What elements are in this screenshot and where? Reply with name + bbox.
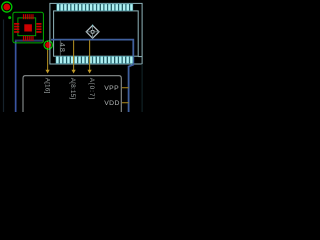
footprint U1 courtyard — [13, 12, 44, 43]
via V1 pad ring — [2, 2, 12, 12]
chip U2 body outline — [23, 76, 121, 112]
wire: outline segment over via V3 — [49, 40, 51, 50]
pin VDD stub — [122, 102, 129, 103]
wire: blue vertical trace — [15, 41, 17, 112]
bus: blue bus polyline — [51, 40, 133, 112]
svg-text:VPP: VPP — [104, 85, 119, 92]
via V3 red drill — [45, 42, 51, 48]
U1 bottom pads — [23, 36, 34, 41]
U1 center pad — [24, 24, 32, 31]
U1 top pads — [23, 14, 34, 19]
connector J1 outer outline — [50, 3, 142, 64]
U1 left pads — [14, 23, 19, 33]
svg-text:48: 48 — [58, 43, 67, 54]
bus entry A[16] arrowhead — [46, 70, 50, 74]
bus entry A[0:7] arrowhead — [88, 70, 92, 74]
marker diamond cross — [86, 25, 99, 38]
connector J1 inner outline — [54, 11, 139, 56]
bus entry A[8:15] wire — [73, 40, 75, 70]
bus entry A[16] wire — [47, 41, 49, 71]
svg-text:A[16]: A[16] — [44, 78, 51, 94]
wire: faint dark vertical trace left edge — [3, 20, 4, 113]
via V3 pad ring on net A[16] — [44, 41, 52, 49]
J1 bottom pads row — [56, 56, 133, 63]
marker diamond probe outline — [86, 25, 99, 38]
background — [0, 0, 146, 112]
bus entry A[0:7] wire — [89, 40, 91, 70]
bus entry A[8:15] arrowhead — [72, 70, 76, 74]
pin VPP stub — [122, 87, 129, 88]
wire: faint continuation below outer outline — [141, 64, 143, 112]
footprint U1 body outline — [18, 18, 36, 36]
U1 right pads — [36, 23, 41, 33]
wire: pin 48 lead — [59, 40, 62, 56]
wire: navy horizontal trace under footprint — [15, 40, 44, 42]
via V2 green dot — [8, 16, 11, 19]
connector J1 outline jog bottom-right — [138, 56, 142, 58]
marker diamond center square — [91, 30, 94, 33]
J1 top pads row — [57, 4, 133, 11]
marker diamond top tick — [92, 25, 93, 27]
svg-text:VDD: VDD — [104, 100, 119, 107]
via V1 red drill — [3, 4, 10, 11]
svg-text:A[0:7]: A[0:7] — [88, 78, 95, 100]
svg-text:A[8:15]: A[8:15] — [69, 78, 76, 100]
